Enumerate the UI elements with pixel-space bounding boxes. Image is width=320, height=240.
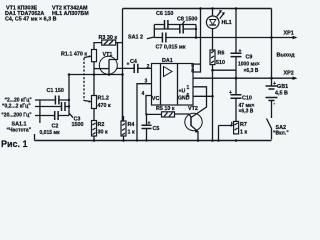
- resistor R4: [121, 116, 135, 142]
- svg-text:1500: 1500: [72, 122, 84, 128]
- resistor R5: [147, 106, 190, 117]
- svg-text:C6 150: C6 150: [156, 11, 173, 17]
- svg-text:SA1 2: SA1 2: [128, 35, 143, 41]
- resistor R1.2: [84, 75, 111, 121]
- svg-text:C2: C2: [52, 124, 59, 130]
- battery GB1: [266, 81, 289, 118]
- dashed link R1: [83, 58, 85, 101]
- C6/C8 selector bus: [153, 25, 155, 38]
- svg-text:30 к: 30 к: [98, 130, 108, 136]
- svg-text:C8 1500: C8 1500: [177, 17, 197, 23]
- svg-text:R6: R6: [218, 51, 225, 57]
- bottom rail: [35, 140, 272, 142]
- svg-text:“20...200 Гц”: “20...200 Гц”: [1, 113, 32, 119]
- svg-text:HL1 АЛ307БМ: HL1 АЛ307БМ: [52, 11, 89, 17]
- svg-text:VT1: VT1: [103, 52, 113, 58]
- output line XP2: [193, 53, 298, 80]
- svg-text:“0,2...2 кГц”: “0,2...2 кГц”: [2, 104, 31, 110]
- svg-text:“2...20 кГц”: “2...20 кГц”: [5, 97, 33, 103]
- svg-text:2: 2: [147, 64, 150, 70]
- switch SA1.2 + C7 line (XP1 line): [128, 33, 296, 51]
- top rail: [123, 8, 272, 10]
- capacitor C1: [41, 88, 69, 105]
- resistor R1.1: [61, 50, 97, 75]
- capacitor C3 (middle): [41, 102, 84, 128]
- svg-text:4,5 В: 4,5 В: [275, 91, 288, 97]
- switch SA2: [267, 119, 290, 140]
- svg-text:C5: C5: [153, 126, 160, 132]
- legend text top-left: [5, 6, 89, 23]
- svg-text:1 к: 1 к: [128, 130, 135, 136]
- svg-text:R4: R4: [128, 122, 135, 128]
- R6 bottom node: [212, 65, 214, 141]
- svg-text:510: 510: [216, 60, 225, 66]
- svg-text:R5 10 к: R5 10 к: [156, 106, 175, 112]
- svg-text:1: 1: [187, 85, 190, 91]
- capacitor C9: [231, 7, 260, 78]
- svg-text:C7 0,015 мк: C7 0,015 мк: [156, 45, 186, 51]
- svg-text:“Частота”: “Частота”: [7, 128, 32, 134]
- svg-text:VT2: VT2: [188, 106, 198, 112]
- range labels + SA1.1: [1, 97, 32, 133]
- svg-text:C1 150: C1 150: [47, 88, 64, 94]
- caps bus: [68, 75, 70, 116]
- svg-text:HL1: HL1: [222, 20, 232, 26]
- capacitor C10: [229, 78, 255, 121]
- SA1.1 contacts: [35, 100, 41, 116]
- svg-text:×6,3 В: ×6,3 В: [244, 68, 259, 74]
- svg-text:1000 мк×: 1000 мк×: [238, 62, 260, 68]
- capacitor C8: [154, 17, 197, 34]
- svg-text:C9: C9: [246, 55, 253, 61]
- capacitor C4: [117, 59, 152, 73]
- svg-text:C4, C5 47 мк × 6,3 В: C4, C5 47 мк × 6,3 В: [5, 17, 57, 23]
- svg-text:1 к: 1 к: [240, 130, 247, 136]
- op-amp DA1: [152, 58, 194, 105]
- svg-text:XP1: XP1: [284, 31, 294, 37]
- svg-text:R1.1 470 к: R1.1 470 к: [61, 52, 87, 58]
- svg-text:XP2: XP2: [284, 71, 294, 77]
- svg-text:×6,3 В: ×6,3 В: [239, 109, 254, 115]
- svg-text:+: +: [127, 62, 130, 68]
- svg-text:Рис. 1: Рис. 1: [1, 139, 28, 149]
- LED HL1: [206, 10, 231, 29]
- resistor R7 (trimmer): [217, 121, 247, 141]
- junction dots node line: [68, 73, 71, 76]
- resistor R3: [94, 35, 123, 50]
- right vertical from top rail: [271, 9, 273, 87]
- svg-text:“Вкл.”: “Вкл.”: [273, 131, 289, 137]
- resistor R2: [92, 121, 108, 142]
- svg-text:470 к: 470 к: [98, 103, 111, 109]
- svg-text:VC: VC: [152, 96, 160, 102]
- wire vertical left main: [122, 9, 124, 122]
- capacitor C5: [142, 113, 160, 141]
- svg-text:R1.2: R1.2: [98, 96, 109, 102]
- svg-text:Выход: Выход: [277, 53, 296, 59]
- svg-text:6: 6: [187, 93, 190, 99]
- transistor VT2: [185, 96, 207, 142]
- node A line: [69, 74, 123, 76]
- svg-text:SA1.1: SA1.1: [12, 121, 27, 127]
- svg-text:+U: +U: [179, 89, 186, 95]
- resistor R6: [210, 50, 225, 66]
- capacitor C6: [154, 11, 196, 29]
- svg-text:C10: C10: [242, 96, 252, 102]
- transistor VT1: [94, 43, 118, 75]
- LED wire: [212, 9, 214, 51]
- svg-text:0,015 мк: 0,015 мк: [40, 130, 61, 136]
- svg-text:R2: R2: [98, 122, 105, 128]
- svg-text:R7: R7: [240, 122, 247, 128]
- selector right bus: [195, 25, 197, 38]
- capacitor C2 (bottom): [40, 111, 70, 136]
- svg-text:GB1: GB1: [277, 84, 288, 90]
- svg-text:4: 4: [142, 91, 145, 97]
